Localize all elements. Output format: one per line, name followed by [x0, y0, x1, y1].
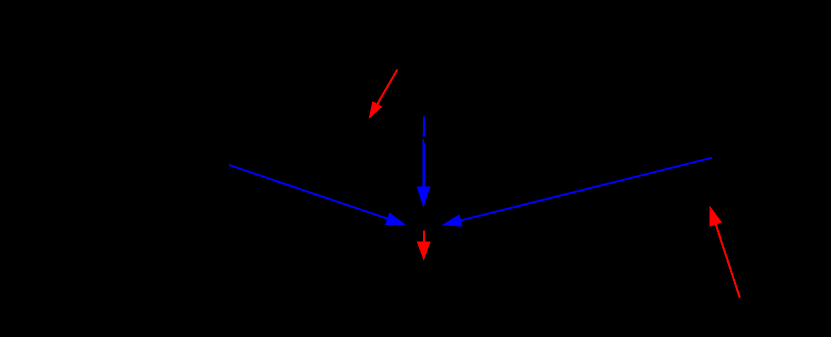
red annotation arrow A (top, pointing down-left) — [369, 70, 397, 118]
blue arrow B (vertical, pointing down) — [417, 117, 430, 207]
blue arrow C (from left, pointing down-right) — [229, 165, 405, 225]
blue arrow D (from right, pointing down-left) — [443, 158, 712, 226]
black text overlap breaking blue shaft (right-half cover) — [424, 139, 428, 143]
red arrow E (center, pointing down) — [417, 231, 430, 260]
red annotation arrow F (bottom right, pointing up) — [710, 207, 740, 298]
black text overlap breaking blue shaft (full cover) — [420, 137, 428, 139]
